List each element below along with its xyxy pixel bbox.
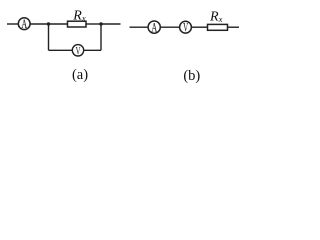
wire: left vertical branch (a) [48, 24, 50, 50]
voltmeter V (circuit b) [180, 21, 192, 35]
svg-text:V: V [76, 45, 81, 59]
svg-text:A: A [21, 19, 27, 32]
svg-text:V: V [183, 22, 189, 36]
wire: circuit (a) right lead [101, 23, 121, 25]
wire: circuit (b) left lead [130, 26, 149, 28]
ammeter A (circuit b) [148, 21, 160, 35]
wire: bottom-right branch (a) [84, 49, 101, 51]
svg-text:(b): (b) [183, 68, 200, 84]
resistor R_x (circuit b) [208, 24, 228, 30]
wire: circuit (b) right lead [228, 26, 240, 28]
voltmeter V (circuit a) [72, 45, 83, 59]
wire: ammeter to resistor (a) [30, 23, 67, 25]
svg-text:A: A [151, 22, 157, 35]
node: left junction (a) [47, 22, 50, 25]
resistor R_x (circuit a) [68, 21, 87, 27]
wire: ammeter to voltmeter (b) [161, 26, 180, 28]
wire: resistor to right junction (a) [86, 23, 101, 25]
wire: circuit (a) left lead [7, 23, 18, 25]
ammeter A (circuit a) [18, 18, 30, 32]
wire: voltmeter to resistor (b) [192, 26, 208, 28]
wire: right vertical branch (a) [100, 24, 102, 50]
svg-text:(a): (a) [72, 67, 88, 83]
node: right junction (a) [99, 22, 102, 25]
wire: bottom-left branch (a) [49, 49, 73, 51]
